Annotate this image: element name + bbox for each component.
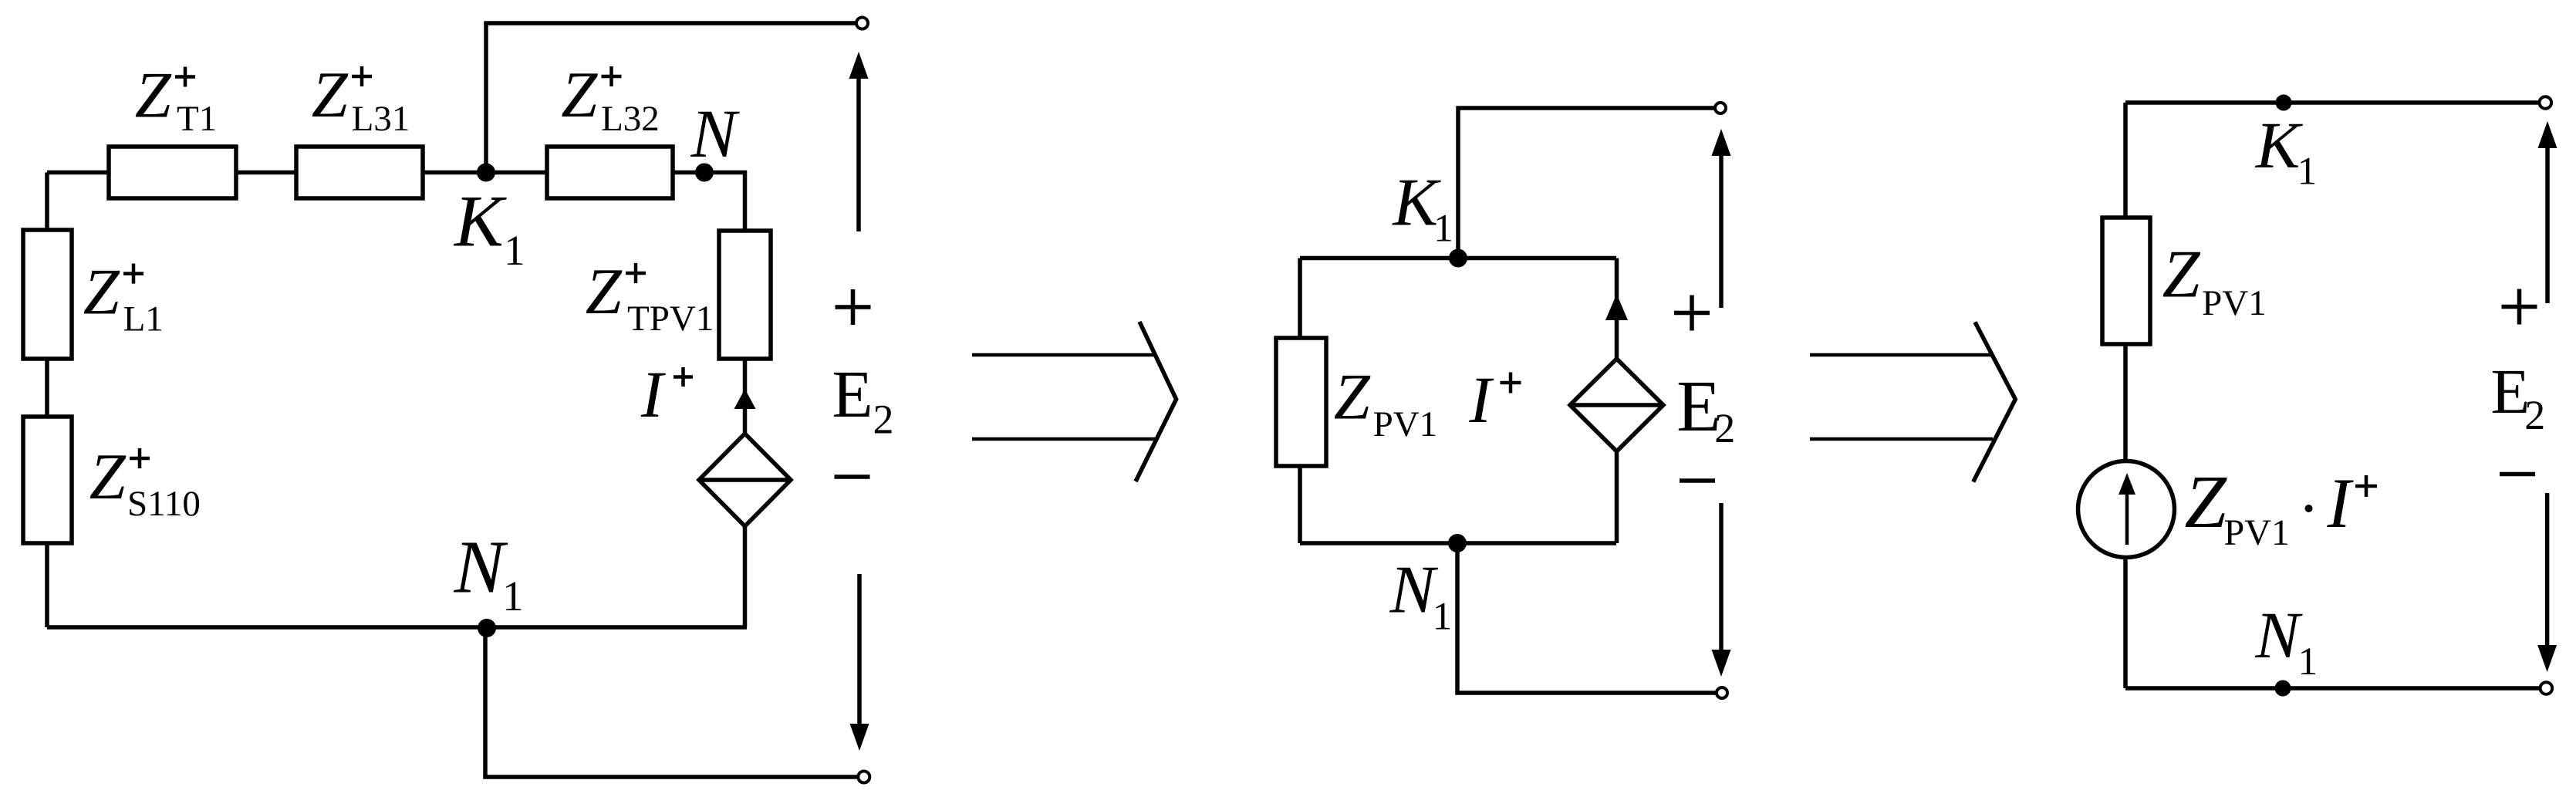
svg-text:Z: Z [312, 59, 349, 131]
svg-text:Z: Z [2185, 461, 2228, 544]
svg-text:K: K [453, 181, 507, 262]
svg-text:2: 2 [873, 397, 893, 443]
svg-text:E: E [832, 356, 873, 431]
svg-text:TPV1: TPV1 [627, 299, 714, 339]
svg-text:Z: Z [135, 60, 172, 132]
svg-text:1: 1 [2297, 150, 2318, 194]
svg-text:1: 1 [504, 227, 525, 274]
svg-text:I: I [640, 357, 666, 431]
svg-text:Z: Z [83, 257, 120, 329]
svg-text:1: 1 [1433, 596, 1453, 639]
svg-text:L31: L31 [352, 99, 410, 139]
svg-text:Z: Z [561, 59, 598, 131]
svg-text:I: I [2326, 464, 2354, 542]
svg-text:N: N [453, 526, 508, 610]
svg-text:2: 2 [1714, 405, 1735, 451]
svg-text:PV1: PV1 [2202, 283, 2267, 323]
svg-text:1: 1 [2298, 640, 2318, 684]
svg-text:2: 2 [2524, 392, 2545, 438]
svg-text:Z: Z [586, 256, 623, 328]
svg-text:K: K [2254, 108, 2304, 182]
svg-text:T1: T1 [177, 99, 217, 139]
svg-text:I: I [1468, 363, 1494, 437]
svg-text:PV1: PV1 [1373, 404, 1438, 444]
svg-text:N: N [2254, 598, 2303, 672]
svg-text:N: N [690, 96, 740, 172]
svg-text:S110: S110 [127, 484, 201, 524]
svg-text:Z: Z [1334, 362, 1371, 434]
svg-text:L32: L32 [601, 99, 660, 139]
svg-text:L1: L1 [123, 299, 164, 339]
svg-text:PV1: PV1 [2224, 512, 2290, 553]
svg-text:1: 1 [1433, 208, 1453, 251]
svg-text:N: N [1389, 553, 1438, 628]
svg-text:1: 1 [502, 573, 524, 620]
svg-text:Z: Z [89, 441, 127, 513]
svg-text:Z: Z [2162, 238, 2201, 312]
